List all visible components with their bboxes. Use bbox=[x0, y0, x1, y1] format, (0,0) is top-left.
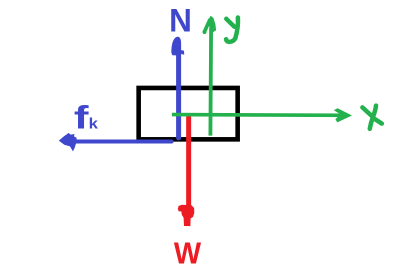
wire: f_k force shaft bbox=[77, 140, 172, 144]
svg-text:W: W bbox=[174, 236, 202, 270]
wire: x axis line bbox=[172, 113, 348, 117]
wire: y axis line bbox=[208, 28, 213, 136]
block rectangle bbox=[139, 88, 238, 139]
wire: N force shaft bbox=[176, 45, 181, 138]
arrowhead of x axis (right) bbox=[334, 108, 352, 122]
arrowhead of N (up) bbox=[171, 37, 184, 56]
arrowhead of y axis (up) bbox=[209, 16, 216, 33]
wire: W force shaft bbox=[186, 116, 191, 207]
arrowhead of W (down) bbox=[178, 205, 195, 226]
svg-text:N: N bbox=[169, 2, 192, 39]
svg-text:k: k bbox=[89, 116, 98, 132]
arrowhead of f_k (left) bbox=[59, 133, 77, 152]
svg-text:f: f bbox=[74, 100, 89, 136]
label y (hand drawn) bbox=[226, 18, 238, 42]
label x (hand drawn) bbox=[362, 106, 381, 129]
